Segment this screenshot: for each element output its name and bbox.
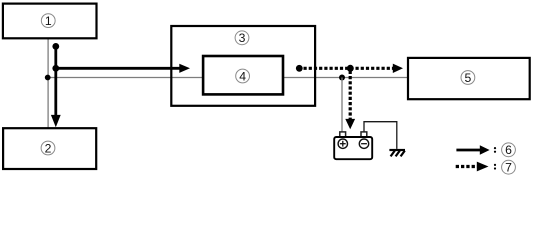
svg-text:3: 3 <box>239 31 246 45</box>
legend solid arrow <box>456 145 496 155</box>
ground <box>389 150 405 156</box>
label 1 <box>41 14 55 28</box>
battery <box>334 132 372 159</box>
label 7 <box>502 160 516 174</box>
svg-text:4: 4 <box>239 69 246 83</box>
wire dotted arrow horizontal to box 5 <box>304 64 404 73</box>
svg-text:5: 5 <box>465 71 472 85</box>
label 6 <box>502 143 516 157</box>
node junction dot left <box>45 75 51 81</box>
label 4 <box>236 69 250 83</box>
box 2 <box>3 128 96 169</box>
box 3 <box>171 26 315 106</box>
node junction dot on thin line <box>339 75 345 81</box>
svg-text:2: 2 <box>45 141 52 155</box>
svg-text:7: 7 <box>505 161 512 175</box>
wire thick arrow horizontal to box 3 <box>52 64 190 73</box>
wire thin horizontal from node to box 5 <box>48 77 408 79</box>
legend dotted arrow <box>456 162 496 172</box>
wire dotted arrow vertical to battery <box>345 71 355 130</box>
wire thick arrow vertical to box 2 <box>51 43 61 127</box>
box 1 <box>3 4 97 39</box>
box 5 <box>408 58 530 99</box>
wire thin vertical to battery plus terminal <box>341 78 343 133</box>
node junction dot on dotted line <box>347 65 354 72</box>
node dot on dotted line inside box 3 <box>296 65 303 72</box>
label 3 <box>235 31 249 45</box>
wire battery negative to ground <box>364 122 397 149</box>
box 4 <box>203 56 283 94</box>
svg-text:6: 6 <box>505 143 512 157</box>
label 2 <box>41 141 55 155</box>
label 5 <box>461 71 475 85</box>
svg-text:1: 1 <box>45 14 52 28</box>
wire thin vertical from box 1 to box 2 <box>47 38 49 128</box>
